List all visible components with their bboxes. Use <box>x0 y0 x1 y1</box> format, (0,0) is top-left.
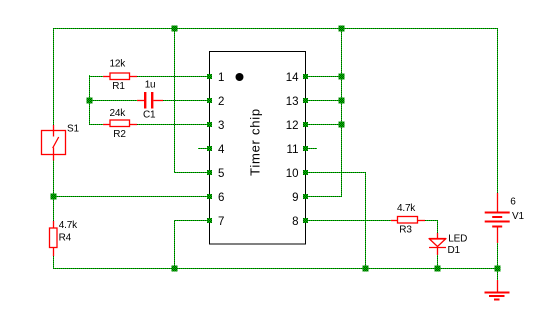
svg-text:12: 12 <box>286 120 299 132</box>
ground <box>485 280 510 300</box>
wire pin13 horizontal <box>306 100 341 102</box>
svg-text:R1: R1 <box>112 81 125 92</box>
wire pin14 horizontal <box>306 76 341 78</box>
wire left vertical S1 to R4 <box>53 157 55 221</box>
node junction top bus x341 <box>339 26 345 32</box>
wire bottom bus <box>53 268 498 270</box>
svg-text:V1: V1 <box>512 211 524 222</box>
pin 14 terminal <box>303 74 308 79</box>
wire pin11 stub <box>306 148 317 150</box>
pin 4 terminal <box>207 146 212 151</box>
svg-text:5: 5 <box>218 168 224 180</box>
resistor R2 <box>103 120 137 127</box>
wire top bus <box>53 28 498 30</box>
svg-text:7: 7 <box>218 216 224 228</box>
svg-text:11: 11 <box>287 144 299 156</box>
svg-text:R4: R4 <box>59 233 72 244</box>
resistor R1 <box>103 73 137 80</box>
svg-text:24k: 24k <box>110 108 127 119</box>
wire pin4 stub <box>198 148 209 150</box>
wire pin9 horizontal <box>306 196 342 198</box>
resistor R4 <box>50 221 58 256</box>
capacitor C1 <box>137 92 163 109</box>
wire row3 right (R2 to pin 3) <box>137 124 209 126</box>
svg-text:Timer chip: Timer chip <box>248 108 263 176</box>
wire LED corner vertical <box>437 220 439 233</box>
wire bottom bus to ground lead <box>497 268 499 280</box>
wire left vertical R4 to bottom bus <box>53 256 55 269</box>
pin 8 terminal <box>303 218 308 223</box>
svg-text:9: 9 <box>292 192 298 204</box>
svg-text:4.7k: 4.7k <box>59 220 78 231</box>
wire R3 to LED corner <box>425 220 438 222</box>
svg-text:LED: LED <box>448 234 467 245</box>
svg-text:10: 10 <box>286 168 299 180</box>
pin 3 terminal <box>207 122 212 127</box>
pin 9 terminal <box>303 194 308 199</box>
node junction pin12 row <box>339 122 345 128</box>
wire LED to bottom bus <box>437 255 439 269</box>
wire pin10 vertical to bottom bus <box>365 172 367 269</box>
op-amp U1 chip body Timer chip <box>210 52 306 245</box>
node junction pin14 row <box>339 74 345 80</box>
node junction bottom bus x174 <box>172 266 178 272</box>
wire left vertical upper (top bus to S1) <box>53 28 55 128</box>
svg-text:12k: 12k <box>110 59 127 70</box>
svg-text:4: 4 <box>218 144 225 156</box>
wire right vertical (top bus to battery) <box>497 28 499 193</box>
wire row1 right (R1 to pin 1) <box>137 76 209 78</box>
wire pin5 horizontal <box>174 172 209 174</box>
svg-text:14: 14 <box>286 72 299 84</box>
svg-text:C1: C1 <box>143 110 156 121</box>
wire row3 left (junction to R2) <box>89 124 103 126</box>
node junction bottom bus x365 <box>363 266 369 272</box>
node junction bottom bus x437 <box>435 266 441 272</box>
svg-text:6: 6 <box>218 192 224 204</box>
node junction C1 left <box>87 98 93 104</box>
pin 10 terminal <box>303 170 308 175</box>
svg-text:R3: R3 <box>399 225 412 236</box>
node junction pin13 row <box>339 98 345 104</box>
node junction top bus x174 <box>172 26 178 32</box>
pin 13 terminal <box>303 98 308 103</box>
wire battery to bottom bus <box>497 243 499 269</box>
switch S1 <box>42 125 66 161</box>
wire pin12 horizontal <box>306 124 341 126</box>
pin 7 terminal <box>207 218 212 223</box>
svg-text:4.7k: 4.7k <box>397 203 416 214</box>
pin 5 terminal <box>207 170 212 175</box>
wire pin7 vertical to bottom bus <box>174 220 176 269</box>
wire R1 C1 R2 left vertical <box>89 75 91 125</box>
wire pin7 horizontal <box>174 220 209 222</box>
wire row1 left (junction to R1) <box>89 76 103 78</box>
svg-text:6: 6 <box>510 197 516 208</box>
wire row2 right (C1 to pin 2) <box>163 100 209 102</box>
svg-text:R2: R2 <box>113 129 126 140</box>
svg-text:8: 8 <box>292 216 298 228</box>
svg-text:1u: 1u <box>145 80 156 91</box>
LED D1 <box>429 233 446 255</box>
svg-text:3: 3 <box>218 120 224 132</box>
node junction bottom bus x497 <box>495 266 501 272</box>
svg-text:13: 13 <box>286 96 299 108</box>
pin 1 terminal <box>207 74 212 79</box>
pin 2 terminal <box>207 98 212 103</box>
wire pin8 horizontal to R3 <box>306 220 391 222</box>
wire pin6 horizontal <box>53 196 209 198</box>
pin 12 terminal <box>303 122 308 127</box>
wire vertical to pin5 <box>174 28 176 172</box>
svg-text:S1: S1 <box>67 124 79 135</box>
svg-text:2: 2 <box>218 96 224 108</box>
battery V1 <box>485 193 510 243</box>
wire row2 left (junction to C1) <box>89 100 137 102</box>
svg-text:1: 1 <box>218 72 224 84</box>
svg-text:D1: D1 <box>448 245 461 256</box>
resistor R3 <box>391 217 425 224</box>
pin 11 terminal <box>303 146 308 151</box>
pin 6 terminal <box>207 194 212 199</box>
node junction S1 column pin6 row <box>51 194 57 200</box>
wire vertical pins 14-13-12 to top bus and pin 9 <box>341 28 343 197</box>
wire pin10 horizontal <box>306 172 365 174</box>
